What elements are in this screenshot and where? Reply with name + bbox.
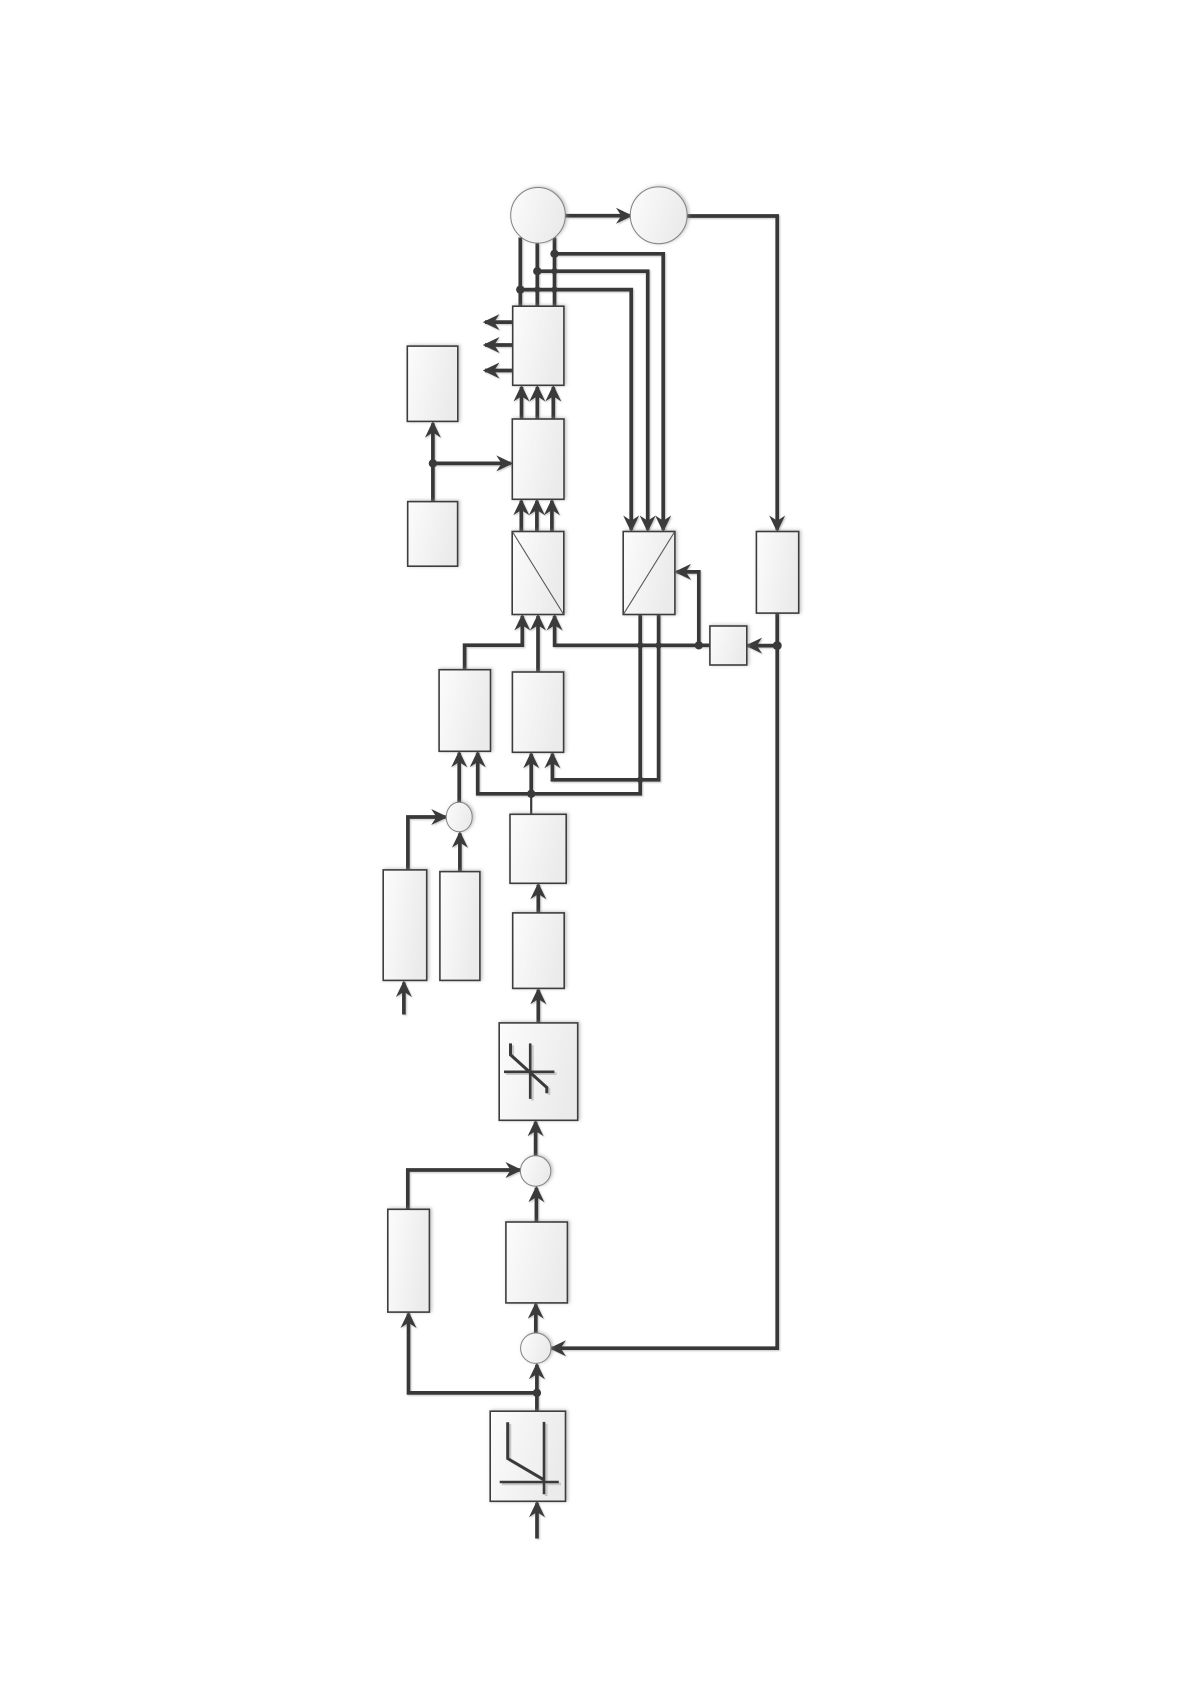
box PL [388, 1209, 430, 1312]
characteristic icon [500, 1422, 559, 1494]
wires T2 to T1 [520, 387, 524, 419]
limiter icon shadow [506, 1045, 556, 1101]
junction dot tap c [516, 285, 524, 293]
box B [512, 672, 563, 752]
wire S2 to LIM [534, 1122, 538, 1156]
sum circle S2 [520, 1156, 550, 1186]
junction dot M1 net [527, 790, 535, 798]
transform box D2 [623, 532, 675, 615]
sum circle S3 [521, 1333, 551, 1363]
wire branch to PL bottom [409, 1314, 537, 1393]
box L2 [408, 502, 458, 567]
inverter left out arrow 2 [485, 343, 513, 347]
wire D2 left out to A [478, 615, 641, 794]
box M1 [510, 814, 566, 883]
junction dot tap a [550, 250, 558, 258]
box M3 [506, 1222, 568, 1303]
thin stub M1 top [530, 794, 532, 815]
wire small box to D1 bottom-right [555, 616, 710, 645]
wire phase c [553, 238, 557, 307]
inverter box T1 [513, 306, 564, 385]
wire sensor to right column down [687, 216, 777, 530]
limiter box LIM [499, 1023, 578, 1120]
tall box TL1 [383, 870, 427, 981]
box A [439, 670, 490, 752]
wire CH up to S3 [535, 1365, 539, 1411]
diagonal of D2 [624, 532, 675, 614]
diagonal of D1 [513, 532, 564, 614]
wire tap a to D2 [555, 254, 664, 530]
wire phase b [535, 244, 539, 307]
junction dot theta [695, 641, 703, 649]
junction dots [429, 250, 782, 1398]
wire M1 to B [529, 754, 533, 794]
crossing dot [637, 777, 643, 783]
inverter left out arrow 1 [485, 320, 513, 324]
right box RB [756, 532, 798, 614]
wire TL1 to S1 [408, 817, 446, 870]
tall box TL2 [440, 872, 480, 981]
wires D1 to T2 [519, 501, 523, 532]
junction dot bottom net [533, 1389, 541, 1397]
wire phase a [518, 238, 522, 307]
wire machine to sensor [566, 214, 631, 218]
inverter left out arrow 3 [485, 369, 513, 373]
small box SB [710, 626, 747, 665]
wire L2 up to L1 [431, 423, 435, 501]
wire right box down, long feedback to sum S3 [552, 613, 778, 1348]
input stub CH [535, 1503, 539, 1539]
characteristic box CH [490, 1411, 565, 1501]
wire tap c to D2 [520, 290, 631, 530]
box M2 [513, 913, 565, 989]
junction dot tap b [533, 267, 541, 275]
sum circle S1 [446, 802, 472, 832]
wire S3 to M3 [534, 1304, 538, 1333]
boxes layer [383, 187, 799, 1501]
wire LIM to M2 [536, 990, 540, 1023]
junction dot right column [773, 641, 782, 650]
wire TL2 to S1 [458, 833, 462, 871]
wire M2 to M1 [536, 885, 540, 913]
crossing dot [637, 642, 643, 648]
crossing dot [655, 642, 661, 648]
transform box D1 [512, 532, 564, 615]
wire junction up to D2 right side [677, 572, 699, 645]
crossing dot [534, 286, 540, 292]
limiter icon [504, 1043, 554, 1099]
wire junction to T2 left [433, 462, 511, 466]
box T2 [512, 419, 564, 499]
crossing dot [551, 268, 557, 274]
wires layer [404, 216, 777, 1539]
machine circle [511, 188, 566, 244]
wire tap b to D2 [537, 271, 647, 530]
wire PL to S2 [408, 1170, 520, 1209]
junction dot L column [429, 459, 437, 467]
box L1 [407, 346, 458, 421]
wire B up to D1 [536, 616, 540, 672]
sensor circle [630, 187, 687, 244]
characteristic icon shadow [502, 1424, 561, 1496]
wire A up to D1 [465, 616, 523, 670]
wire S1 to A [457, 753, 461, 803]
wire junction to small box [748, 644, 778, 648]
wire D2 right out to B [552, 615, 658, 780]
wire M3 to S2 [535, 1188, 539, 1222]
crossing dot [551, 286, 557, 292]
input stub TL1 [402, 983, 406, 1015]
